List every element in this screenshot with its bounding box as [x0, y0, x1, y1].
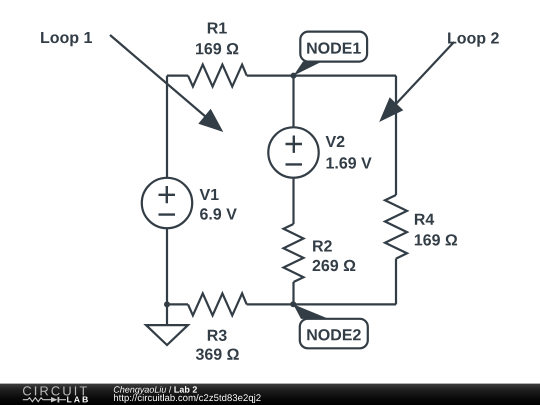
- footer bar: [0, 384, 540, 405]
- logo LAB: [67, 397, 88, 403]
- wire bottom left segment: [167, 303, 188, 305]
- node dot NODE2: [290, 301, 296, 307]
- value V1: [200, 208, 237, 219]
- NODE2 label box: [300, 319, 368, 349]
- resistor R2: [284, 224, 304, 282]
- voltage source V1: [142, 178, 192, 228]
- value R2: [313, 260, 356, 271]
- wire R2 to NODE2: [292, 282, 294, 304]
- voltage source V2: [268, 127, 318, 177]
- Loop 2 arrowhead: [379, 97, 403, 122]
- ground stub wire: [166, 304, 168, 325]
- NODE1 label box: [300, 32, 367, 62]
- junction dot ground node: [164, 301, 170, 307]
- value R4: [415, 234, 457, 245]
- logo CIRCUIT: [23, 386, 87, 395]
- text NODE2: [307, 329, 360, 340]
- resistor R3: [188, 293, 247, 315]
- wire left side lower: [166, 228, 168, 304]
- value R3: [196, 349, 239, 360]
- wire top-left corner to R1: [167, 74, 188, 76]
- footer url line: [114, 394, 261, 403]
- wire middle upper: [292, 76, 294, 128]
- wire bottom right segment: [247, 303, 396, 305]
- value R1: [196, 43, 238, 54]
- label V2: [326, 136, 345, 147]
- label R3: [208, 330, 227, 341]
- wire R1 to top-right corner: [247, 74, 396, 76]
- footer author line: [114, 386, 197, 394]
- wire middle V2 to R2: [292, 178, 294, 224]
- logo resistor-diode symbol: [23, 398, 66, 402]
- wire right side lower: [395, 259, 397, 305]
- label R4: [415, 214, 434, 225]
- resistor R1: [188, 65, 247, 87]
- value V2: [327, 157, 372, 168]
- wire right side upper: [395, 76, 397, 195]
- Loop 1 arrowhead: [198, 109, 223, 132]
- Loop 2 arrow line: [394, 42, 454, 106]
- wire left side upper: [166, 76, 168, 178]
- resistor R4: [385, 195, 407, 259]
- label R2: [313, 240, 332, 251]
- label Loop 1: [41, 32, 92, 46]
- node dot NODE1: [291, 73, 297, 79]
- NODE1 pointer wedge: [294, 62, 323, 76]
- NODE2 pointer wedge: [293, 304, 329, 319]
- Loop 1 arrow line: [110, 35, 206, 117]
- label V1: [200, 189, 219, 200]
- ground: [146, 325, 188, 345]
- label R1: [208, 23, 227, 34]
- text NODE1: [307, 42, 361, 53]
- label Loop 2: [448, 32, 499, 47]
